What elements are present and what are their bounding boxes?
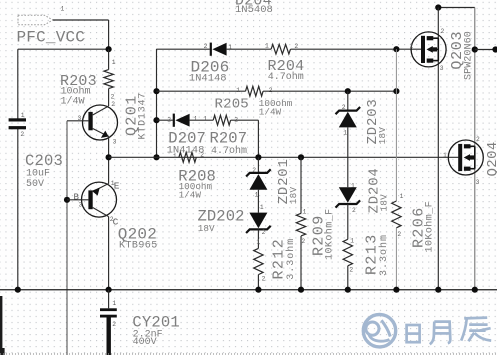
resistor R203 <box>108 49 110 69</box>
svg-text:1: 1 <box>400 193 404 200</box>
node <box>472 287 478 293</box>
svg-text:2: 2 <box>204 43 208 50</box>
node emitter junction <box>106 154 112 160</box>
svg-text:2: 2 <box>111 94 115 101</box>
node <box>298 287 304 293</box>
svg-text:2: 2 <box>111 101 115 108</box>
node <box>153 117 159 123</box>
svg-text:1: 1 <box>173 153 177 160</box>
resistor R207 <box>213 115 230 125</box>
svg-text:Q204: Q204 <box>485 141 497 176</box>
svg-text:SPW20N60: SPW20N60 <box>463 31 474 80</box>
svg-text:2: 2 <box>349 267 353 274</box>
svg-text:1: 1 <box>194 115 198 122</box>
svg-text:3.3ohm: 3.3ohm <box>378 234 390 276</box>
svg-text:1: 1 <box>203 115 207 122</box>
node Q202 base junction <box>64 197 70 203</box>
svg-text:4.7ohm: 4.7ohm <box>268 71 304 83</box>
svg-text:2: 2 <box>252 167 256 174</box>
wire PFC_VCC horizontal <box>18 48 109 50</box>
node <box>153 88 159 94</box>
node D204 junction <box>435 4 441 10</box>
svg-text:3.3ohm: 3.3ohm <box>285 238 297 280</box>
svg-text:1: 1 <box>343 129 347 136</box>
node gate network junction top <box>393 46 399 52</box>
svg-text:R213: R213 <box>363 233 380 275</box>
svg-text:1: 1 <box>303 209 307 216</box>
wire D207/R207 row <box>157 119 173 121</box>
wire Q204 drain line right <box>474 8 476 290</box>
svg-text:3: 3 <box>476 179 480 186</box>
wire <box>108 20 110 49</box>
resistor R212 <box>254 248 263 274</box>
transistor Q202 <box>82 182 117 217</box>
svg-text:18V: 18V <box>288 187 299 205</box>
wire Q202 collector down <box>108 217 110 290</box>
svg-text:10Kohm_F: 10Kohm_F <box>424 201 436 253</box>
node <box>106 287 112 293</box>
resistor R213 <box>343 239 352 266</box>
node <box>345 287 351 293</box>
svg-text:3: 3 <box>78 115 82 122</box>
svg-text:1/4W: 1/4W <box>259 107 282 118</box>
capacitor CY201 <box>108 290 110 309</box>
svg-text:1N5408: 1N5408 <box>235 4 273 16</box>
node <box>298 154 304 160</box>
svg-text:C203: C203 <box>25 152 63 170</box>
diode D207 <box>173 114 175 127</box>
mosfet Q204 <box>448 140 483 175</box>
wire C203 branch down <box>17 49 19 121</box>
node <box>255 287 261 293</box>
svg-text:3: 3 <box>113 139 117 146</box>
wire base line to bottom edge <box>66 200 68 355</box>
wire gate drive top (to Q203 gate) <box>157 48 210 50</box>
svg-text:3: 3 <box>440 65 444 72</box>
svg-text:18V: 18V <box>378 194 389 212</box>
svg-text:KTD1347: KTD1347 <box>137 92 148 140</box>
svg-text:1: 1 <box>256 238 260 245</box>
node <box>153 154 159 160</box>
svg-text:1: 1 <box>61 6 65 13</box>
svg-text:18V: 18V <box>377 127 388 145</box>
diode D206 <box>210 43 212 56</box>
node <box>393 88 399 94</box>
svg-text:1/4W: 1/4W <box>61 96 85 108</box>
svg-text:1: 1 <box>260 204 264 211</box>
svg-text:2: 2 <box>476 136 480 143</box>
svg-text:2: 2 <box>112 321 116 328</box>
svg-text:2: 2 <box>441 28 445 35</box>
resistor R206 <box>395 49 397 201</box>
svg-text:1N4148: 1N4148 <box>189 72 227 84</box>
node <box>393 287 399 293</box>
wire top rail (drain) <box>438 7 475 9</box>
watermark char ri <box>407 325 420 342</box>
svg-text:1/4W: 1/4W <box>179 190 202 201</box>
node <box>345 88 351 94</box>
svg-text:1: 1 <box>410 43 414 50</box>
svg-text:2: 2 <box>200 151 204 158</box>
svg-text:2: 2 <box>262 229 266 236</box>
zener ZD203 <box>347 91 349 110</box>
svg-text:2: 2 <box>262 276 266 283</box>
wire bottom rail <box>0 289 497 291</box>
resistor R205 <box>246 86 264 96</box>
svg-text:1: 1 <box>21 112 25 119</box>
svg-text:2: 2 <box>167 117 171 124</box>
zener ZD204 <box>339 187 357 203</box>
resistor R209 <box>300 157 302 213</box>
svg-text:18V: 18V <box>198 223 215 234</box>
resistor R204 <box>271 44 290 54</box>
watermark char chen <box>461 318 491 342</box>
wire down to output bus <box>257 120 259 157</box>
svg-text:1: 1 <box>112 59 116 66</box>
svg-text:R205: R205 <box>215 97 249 113</box>
svg-text:1: 1 <box>112 300 116 307</box>
svg-text:2: 2 <box>352 207 356 214</box>
node drain branch <box>472 46 478 52</box>
mosfet Q203 <box>411 32 446 67</box>
svg-text:1: 1 <box>443 152 447 159</box>
wire drain node to right edge <box>475 49 497 51</box>
svg-text:2: 2 <box>301 238 305 245</box>
svg-text:1: 1 <box>236 87 240 94</box>
node <box>15 287 21 293</box>
svg-text:4.7ohm: 4.7ohm <box>211 145 247 157</box>
wire base line Q201-Q202 <box>66 121 68 200</box>
resistor R208 <box>179 152 196 162</box>
svg-text:1: 1 <box>351 183 355 190</box>
wire drive bus vertical x156 <box>156 49 158 157</box>
connector PFC_VCC <box>18 15 53 25</box>
svg-text:2: 2 <box>20 131 24 138</box>
svg-text:3: 3 <box>79 202 83 209</box>
svg-text:10Kohm_F: 10Kohm_F <box>323 208 335 260</box>
node <box>435 287 441 293</box>
wire top-left from connector <box>53 19 109 21</box>
svg-text:10uF: 10uF <box>26 168 50 179</box>
capacitor C203 <box>9 118 26 121</box>
wire Q203 drain/source vertical <box>437 8 439 290</box>
watermark logo circle <box>363 315 395 347</box>
svg-text:1: 1 <box>228 44 232 51</box>
svg-text:400V: 400V <box>133 337 157 348</box>
svg-text:R212: R212 <box>270 238 287 280</box>
node <box>255 154 261 160</box>
svg-text:2: 2 <box>397 231 401 238</box>
svg-text:E: E <box>114 180 120 191</box>
svg-text:KTB965: KTB965 <box>119 240 158 251</box>
wire output bus y157 to Q204 gate <box>109 156 459 158</box>
watermark char yue <box>430 322 451 345</box>
node PFC_VCC junction <box>106 46 112 52</box>
svg-text:2: 2 <box>342 104 346 111</box>
transistor Q201 <box>83 105 118 140</box>
scan edge artifacts <box>0 296 2 355</box>
svg-text:50V: 50V <box>26 179 44 190</box>
svg-text:PFC_VCC: PFC_VCC <box>17 28 86 46</box>
svg-text:1: 1 <box>350 238 354 245</box>
wire R205 row <box>157 90 246 92</box>
zener ZD202 <box>249 213 267 229</box>
svg-text:1: 1 <box>265 43 269 50</box>
zener ZD201 <box>257 157 259 172</box>
node at right edge <box>492 46 497 52</box>
